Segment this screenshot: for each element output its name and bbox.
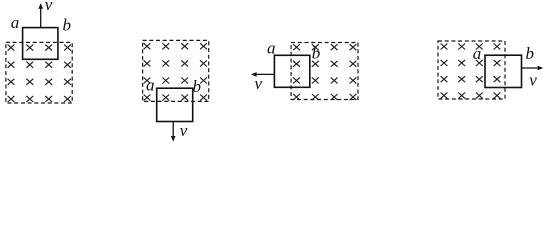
magnetic field region B3 (dashed boundary) (291, 43, 358, 100)
svg-text:a: a (11, 13, 20, 32)
magnetic field region B4 (dashed boundary) (438, 41, 505, 99)
svg-text:b: b (62, 15, 71, 34)
svg-text:a: a (473, 44, 482, 63)
svg-text:b: b (526, 44, 535, 63)
magnetic field region B1 (dashed boundary) (6, 42, 72, 103)
velocity arrow v (diagram 2) (172, 122, 174, 138)
svg-text:v: v (180, 121, 188, 140)
conducting loop ab (diagram 1) (23, 28, 58, 60)
velocity arrow v (diagram 4) (522, 67, 539, 69)
velocity arrow v (diagram 1) (40, 8, 42, 28)
svg-text:a: a (146, 76, 155, 95)
svg-text:a: a (267, 38, 276, 57)
svg-text:v: v (529, 71, 537, 90)
conducting loop ab (diagram 4) (485, 55, 522, 87)
conducting loop ab (diagram 2) (157, 88, 193, 121)
svg-text:b: b (192, 77, 201, 96)
field B3 flux crosses (B into page) (293, 44, 356, 100)
magnetic field region B2 (dashed boundary) (143, 40, 209, 101)
field B1 flux crosses (B into page) (8, 45, 71, 102)
svg-text:v: v (255, 74, 263, 93)
conducting loop ab (diagram 3) (274, 55, 309, 87)
field B2 flux crosses (B into page) (144, 43, 207, 100)
svg-text:v: v (45, 0, 53, 14)
velocity arrow v (diagram 3) (256, 73, 275, 75)
field B4 flux crosses (B into page) (441, 44, 501, 99)
svg-text:b: b (312, 44, 321, 63)
